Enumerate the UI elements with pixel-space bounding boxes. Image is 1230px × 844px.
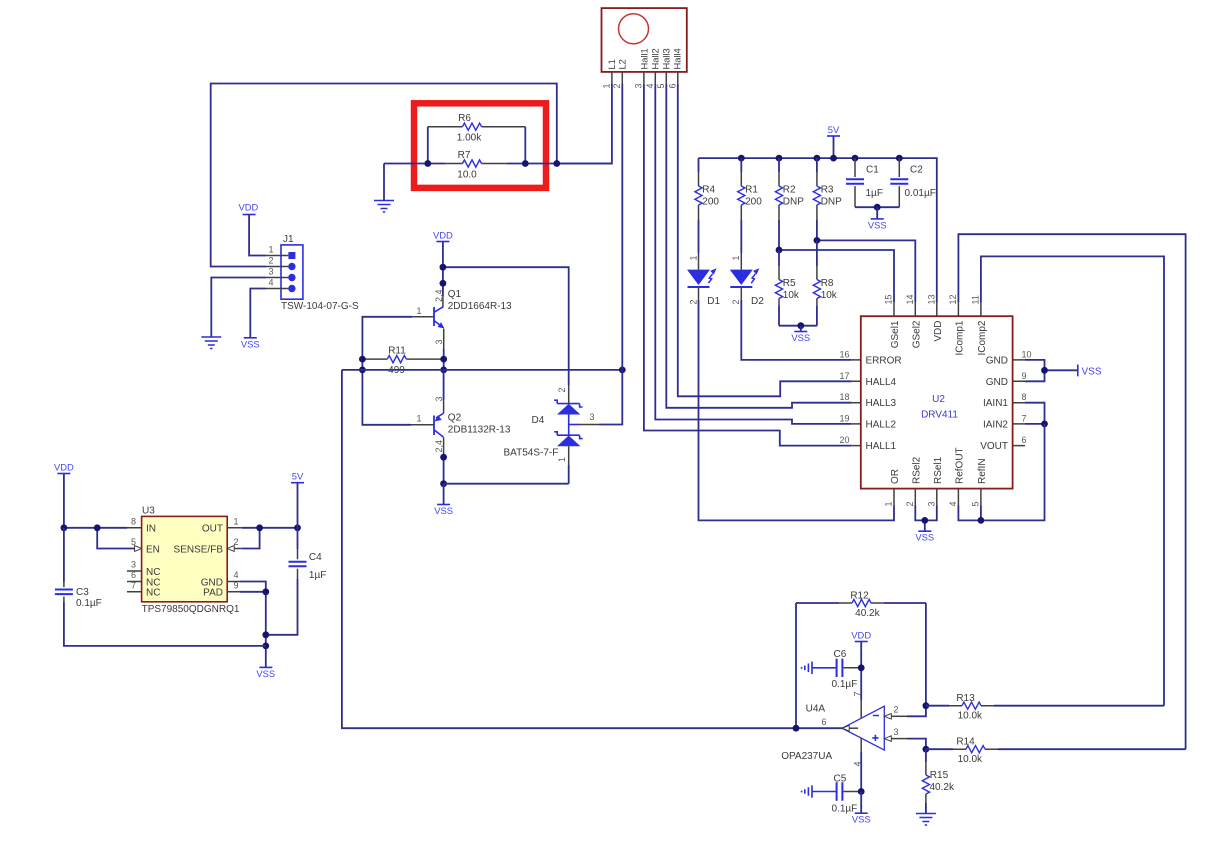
ground symbol left of R7 — [374, 201, 394, 213]
svg-text:2: 2 — [731, 299, 741, 304]
resistor R14 — [926, 748, 1186, 750]
svg-text:12: 12 — [948, 294, 958, 304]
wire left vertical to opamp output row — [342, 370, 858, 728]
svg-text:10.0k: 10.0k — [958, 710, 983, 721]
svg-text:R4: R4 — [702, 184, 715, 195]
rail junction R2 — [776, 155, 783, 162]
svg-text:200: 200 — [745, 196, 762, 207]
svg-text:GND: GND — [986, 377, 1008, 388]
junction VDD-C3 — [61, 524, 68, 531]
wire to VSS below Q2 — [443, 484, 445, 505]
svg-text:VDD: VDD — [933, 321, 944, 342]
svg-text:9: 9 — [1022, 371, 1027, 381]
J1 pin stubs — [266, 256, 288, 289]
resistor R1 — [740, 158, 742, 172]
svg-text:RSel2: RSel2 — [911, 456, 922, 484]
svg-text:6: 6 — [667, 83, 677, 88]
resistor R11 — [362, 358, 443, 360]
wire D1 to OR pin row — [699, 300, 895, 520]
junction C5 VSS — [858, 788, 865, 795]
wire J1 pin3 to ground — [211, 278, 266, 338]
svg-text:VDD: VDD — [239, 202, 259, 213]
svg-text:5V: 5V — [292, 471, 304, 482]
svg-text:1: 1 — [557, 457, 567, 462]
junction node R6R7 left — [424, 160, 431, 167]
svg-text:C2: C2 — [910, 164, 923, 175]
svg-text:R12: R12 — [850, 591, 869, 602]
svg-text:1: 1 — [233, 516, 238, 526]
J1 pad pin2 — [288, 263, 295, 270]
junction R11 left — [359, 356, 366, 363]
svg-text:Hall4: Hall4 — [673, 48, 683, 69]
junction Q1 emitter row — [440, 367, 447, 374]
svg-text:0.01µF: 0.01µF — [905, 188, 936, 199]
svg-text:16: 16 — [839, 349, 849, 359]
svg-text:1: 1 — [601, 83, 611, 88]
svg-text:R14: R14 — [956, 737, 975, 748]
svg-text:VSS: VSS — [868, 219, 887, 230]
svg-text:OR: OR — [890, 469, 901, 484]
opamp output arrow — [842, 725, 849, 731]
sensor pin stubs — [612, 72, 678, 84]
wire RefIN pin5 — [980, 506, 982, 521]
svg-text:40.2k: 40.2k — [930, 782, 955, 793]
svg-text:IComp2: IComp2 — [977, 320, 988, 355]
svg-text:6: 6 — [131, 570, 136, 580]
svg-text:DNP: DNP — [821, 196, 842, 207]
svg-text:VDD: VDD — [54, 462, 74, 473]
rail junction C1 — [852, 155, 859, 162]
junction C1C2 VSS — [874, 204, 881, 211]
svg-text:R11: R11 — [388, 346, 406, 357]
svg-text:3: 3 — [434, 396, 444, 401]
capacitor C3 — [63, 528, 65, 582]
junction GND pins — [1041, 367, 1048, 374]
svg-text:U2: U2 — [932, 394, 945, 405]
J1 pad pin1 — [288, 252, 295, 259]
junction R11 right — [440, 356, 447, 363]
svg-text:200: 200 — [702, 196, 719, 207]
wire IAIN pins joined — [1025, 403, 1045, 424]
svg-text:2,4: 2,4 — [434, 289, 444, 302]
svg-text:4: 4 — [645, 83, 655, 88]
svg-text:8: 8 — [1022, 392, 1027, 402]
svg-text:3: 3 — [131, 560, 136, 570]
svg-text:VSS: VSS — [852, 814, 871, 825]
svg-text:0.1µF: 0.1µF — [76, 598, 102, 609]
svg-text:40.2k: 40.2k — [855, 608, 880, 619]
resistor R13 — [926, 705, 1164, 707]
junction R5R8 VSS — [797, 322, 804, 329]
svg-text:C6: C6 — [834, 649, 847, 660]
wire C1 C2 bottoms — [855, 206, 899, 208]
svg-text:RefOUT: RefOUT — [954, 447, 965, 484]
svg-text:0.1µF: 0.1µF — [832, 679, 858, 690]
rail junction R3 — [814, 155, 821, 162]
wire HALL1 — [644, 84, 852, 446]
svg-text:J1: J1 — [283, 234, 294, 245]
svg-text:VDD: VDD — [851, 630, 871, 641]
svg-text:BAT54S-7-F: BAT54S-7-F — [504, 447, 559, 458]
svg-text:R5: R5 — [783, 278, 796, 289]
U3 right pin stubs — [227, 528, 242, 592]
wire R3 node to GSel2 — [817, 240, 915, 302]
connector J1 box — [281, 245, 303, 299]
wire to ground left of R7 — [383, 164, 385, 201]
svg-text:Hall3: Hall3 — [662, 48, 672, 69]
svg-text:3: 3 — [268, 267, 273, 277]
svg-text:2: 2 — [612, 83, 622, 88]
junction OUT-C4 — [294, 524, 301, 531]
wire GND pins to VSS — [1025, 360, 1078, 381]
svg-text:GND: GND — [986, 355, 1008, 366]
wire PAD to VSS — [240, 592, 266, 668]
resistor R6 — [428, 127, 526, 164]
svg-text:10: 10 — [1022, 349, 1032, 359]
wire R12 right down to minus node — [925, 603, 927, 706]
svg-text:L1: L1 — [607, 59, 617, 69]
svg-text:VSS: VSS — [434, 505, 453, 516]
wire output row to L2 vertical — [342, 369, 622, 371]
svg-text:RefIN: RefIN — [977, 458, 988, 484]
svg-text:IComp1: IComp1 — [954, 320, 965, 355]
svg-text:2: 2 — [268, 256, 273, 266]
J1 pad pin3 — [288, 274, 295, 281]
svg-text:1: 1 — [268, 245, 273, 255]
power VSS below R5 R8 — [800, 326, 802, 332]
svg-text:15: 15 — [884, 294, 894, 304]
svg-text:RSel1: RSel1 — [933, 456, 944, 484]
svg-text:5: 5 — [656, 83, 666, 88]
svg-text:10.0k: 10.0k — [958, 754, 983, 765]
wire SENSE/FB feedback — [242, 528, 260, 549]
svg-text:OUT: OUT — [202, 523, 223, 534]
junction below Q2 — [440, 454, 447, 461]
power VSS below opamp — [860, 792, 862, 814]
svg-text:OPA237UA: OPA237UA — [781, 751, 832, 762]
wire J1 pin4 to VSS — [250, 289, 266, 338]
svg-text:4: 4 — [268, 278, 273, 288]
svg-text:2DD1664R-13: 2DD1664R-13 — [448, 301, 512, 312]
svg-text:7: 7 — [853, 691, 863, 696]
wire Q2 emitter to VSS row — [443, 455, 445, 484]
svg-text:3: 3 — [894, 727, 899, 737]
svg-text:2,4: 2,4 — [434, 440, 444, 453]
svg-text:3: 3 — [633, 83, 643, 88]
svg-text:4: 4 — [853, 761, 863, 766]
svg-text:VSS: VSS — [256, 668, 275, 679]
U3 left pin stubs — [127, 528, 142, 592]
ground below R15 — [916, 814, 936, 826]
svg-text:1µF: 1µF — [866, 188, 883, 199]
wire bottom row to D4 bottom — [444, 483, 569, 485]
junction output node — [793, 725, 800, 732]
svg-text:C1: C1 — [866, 164, 879, 175]
svg-text:D4: D4 — [532, 415, 545, 426]
svg-text:4: 4 — [233, 570, 238, 580]
junction C6 VDD — [858, 664, 865, 671]
junction at Q1 collector — [440, 280, 447, 287]
arrow into EN pin — [135, 546, 142, 552]
junction RefIN — [978, 517, 985, 524]
power VSS below U3 — [259, 666, 272, 668]
junction node R6R7 right — [522, 160, 529, 167]
op-amp U4A — [842, 706, 884, 750]
svg-text:1: 1 — [416, 413, 421, 423]
svg-text:R3: R3 — [821, 184, 834, 195]
wire J1 pin2 up and across to R6R7 output node — [211, 84, 557, 267]
svg-text:2: 2 — [688, 299, 698, 304]
rail junction R1 — [738, 155, 745, 162]
svg-text:R8: R8 — [821, 278, 834, 289]
junction Q2 bottom row — [440, 480, 447, 487]
svg-text:VSS: VSS — [1082, 366, 1102, 377]
svg-text:IAIN1: IAIN1 — [983, 398, 1008, 409]
svg-text:U3: U3 — [142, 506, 155, 517]
svg-text:9: 9 — [233, 580, 238, 590]
svg-text:13: 13 — [926, 294, 936, 304]
svg-text:TSW-104-07-G-S: TSW-104-07-G-S — [281, 301, 359, 312]
svg-text:ERROR: ERROR — [866, 355, 902, 366]
diode D4 top schottky — [568, 385, 570, 404]
red highlight rectangle — [414, 103, 546, 188]
wire R2 node to GSel1 — [779, 250, 894, 302]
wire HALL4 — [678, 84, 852, 396]
svg-text:GSel1: GSel1 — [890, 320, 901, 348]
junction R3-R8 — [814, 237, 821, 244]
svg-text:NC: NC — [146, 567, 160, 578]
power VSS below J1 — [244, 337, 257, 339]
wire HALL2 — [655, 84, 851, 424]
resistor R12 — [796, 602, 926, 604]
wire OUT to 5V node — [242, 527, 298, 529]
svg-text:3: 3 — [434, 339, 444, 344]
svg-text:1: 1 — [688, 255, 698, 260]
svg-text:U4A: U4A — [806, 704, 826, 715]
svg-text:5V: 5V — [828, 124, 840, 135]
svg-text:2DB1132R-13: 2DB1132R-13 — [448, 425, 511, 436]
opamp plus input pin3 — [884, 736, 891, 742]
power VSS below U2 — [918, 530, 931, 532]
wire R12 left down to output node — [795, 603, 797, 728]
resistor R15 — [925, 749, 927, 762]
power VSS below Q2 — [437, 504, 450, 506]
capacitor C2 — [898, 158, 900, 177]
resistor R3 — [816, 158, 818, 172]
svg-text:L2: L2 — [618, 59, 628, 69]
svg-text:C3: C3 — [76, 587, 89, 598]
svg-text:NC: NC — [146, 588, 160, 599]
J1 pad pin4 — [288, 285, 295, 292]
wire VDD down to IN row — [64, 474, 127, 528]
wire VDD to Q1 collector — [442, 242, 444, 297]
svg-text:10k: 10k — [821, 290, 838, 301]
wire Q1 collector node to D4 top — [443, 267, 569, 385]
junction node R7 output — [553, 160, 560, 167]
svg-text:DNP: DNP — [783, 196, 804, 207]
svg-text:Hall2: Hall2 — [651, 48, 661, 69]
U2 top pin stubs — [894, 302, 981, 316]
svg-text:VSS: VSS — [915, 532, 934, 543]
hall sensor module box — [602, 8, 687, 72]
svg-text:2: 2 — [894, 705, 899, 715]
opamp minus input pin2 — [884, 714, 891, 720]
svg-text:10k: 10k — [783, 290, 800, 301]
rail junction C2 — [896, 155, 903, 162]
svg-text:2: 2 — [557, 387, 567, 392]
LED D1 — [698, 253, 700, 270]
svg-text:0.1µF: 0.1µF — [832, 803, 858, 814]
svg-text:17: 17 — [839, 371, 849, 381]
svg-text:VOUT: VOUT — [980, 441, 1008, 452]
resistor R5 — [778, 250, 780, 266]
svg-text:6: 6 — [821, 717, 826, 727]
diode D4 bottom schottky — [554, 432, 582, 439]
power VSS right of U2 — [1077, 365, 1079, 377]
LED D2 — [740, 253, 742, 270]
svg-text:R7: R7 — [458, 150, 471, 161]
wire Q1 emitter down — [443, 349, 445, 370]
transistor Q1 — [442, 296, 444, 307]
resistor R4 — [698, 158, 700, 172]
capacitor C5 — [844, 791, 862, 793]
capacitor C1 — [854, 158, 856, 177]
wire L1 to R6R7 node — [557, 84, 612, 164]
svg-text:R6: R6 — [458, 113, 471, 124]
svg-text:7: 7 — [131, 580, 136, 590]
svg-text:DRV411: DRV411 — [921, 410, 958, 421]
junction C4 bottom — [262, 631, 269, 638]
svg-text:PAD: PAD — [203, 588, 223, 599]
svg-text:2: 2 — [905, 501, 915, 506]
svg-text:Q1: Q1 — [448, 289, 462, 300]
svg-text:HALL3: HALL3 — [866, 398, 897, 409]
U2 bottom pin stubs — [894, 489, 981, 506]
wire IComp1 to outer loop — [958, 234, 1185, 749]
junction OUT-SENSE — [256, 524, 263, 531]
svg-text:Hall1: Hall1 — [640, 48, 650, 69]
svg-text:VDD: VDD — [433, 230, 453, 241]
capacitor C4 — [297, 528, 299, 549]
svg-text:HALL2: HALL2 — [866, 419, 897, 430]
wire VDD to J1 pin1 — [249, 215, 266, 256]
svg-text:TPS79850QDGNRQ1: TPS79850QDGNRQ1 — [142, 604, 240, 615]
junction at VDD branch — [440, 264, 447, 271]
svg-text:11: 11 — [970, 295, 980, 304]
svg-text:18: 18 — [839, 392, 849, 402]
junction minus node R13 — [923, 702, 930, 709]
5V rail — [699, 158, 937, 302]
svg-text:5: 5 — [970, 501, 980, 506]
svg-text:D1: D1 — [707, 296, 720, 307]
svg-text:R1: R1 — [745, 184, 758, 195]
svg-text:1: 1 — [731, 255, 741, 260]
wire EN branch — [97, 528, 134, 549]
wire D2 to ERROR pin — [741, 300, 851, 360]
svg-text:1: 1 — [884, 501, 894, 506]
arrow into SENSE/FB pin — [227, 546, 234, 552]
svg-text:C4: C4 — [309, 552, 322, 563]
ground symbol below J1 — [201, 337, 221, 349]
wire IComp2 to inner loop — [981, 256, 1164, 705]
svg-text:SENSE/FB: SENSE/FB — [174, 544, 224, 555]
svg-text:IAIN2: IAIN2 — [983, 419, 1008, 430]
wire HALL3 — [666, 84, 851, 408]
DRV411 U2 box — [861, 316, 1013, 488]
svg-text:HALL1: HALL1 — [866, 441, 897, 452]
svg-text:6: 6 — [1022, 435, 1027, 445]
svg-text:GSel2: GSel2 — [911, 320, 922, 348]
junction RSel VSS — [921, 517, 928, 524]
resistor R2 — [778, 158, 780, 172]
rail junction 5V — [830, 155, 837, 162]
junction plus node R14 — [923, 746, 930, 753]
wire IAIN down to RefOUT RefIN — [958, 424, 1044, 521]
junction R11 base row — [359, 367, 366, 374]
svg-text:R13: R13 — [956, 693, 975, 704]
transistor Q2 — [443, 370, 445, 400]
junction EN branch — [94, 524, 101, 531]
svg-text:7: 7 — [1022, 413, 1027, 423]
U2 right pin stubs — [1013, 360, 1025, 446]
svg-text:VSS: VSS — [241, 338, 260, 349]
svg-text:D2: D2 — [751, 296, 764, 307]
junction C3 bottom row — [262, 643, 269, 650]
svg-text:10.0: 10.0 — [457, 169, 477, 180]
U2 left pin stubs — [852, 360, 861, 446]
resistor R8 — [816, 240, 818, 266]
sensor core circle — [619, 14, 649, 44]
wire L2 from sensor down to D4 pin3 — [599, 84, 622, 425]
junction on L2 vertical — [619, 367, 626, 374]
svg-text:1µF: 1µF — [309, 570, 326, 581]
svg-text:Q2: Q2 — [448, 413, 462, 424]
regulator U3 box — [142, 516, 228, 601]
svg-text:19: 19 — [839, 413, 849, 423]
resistor R7 — [384, 163, 612, 165]
junction IAIN — [1041, 421, 1048, 428]
svg-text:4: 4 — [948, 501, 958, 506]
svg-text:R2: R2 — [783, 184, 796, 195]
svg-text:EN: EN — [146, 544, 160, 555]
wire GND pin to PAD junction — [240, 582, 266, 592]
svg-text:HALL4: HALL4 — [866, 377, 897, 388]
svg-text:20: 20 — [839, 435, 849, 445]
svg-text:C5: C5 — [834, 773, 847, 784]
svg-text:8: 8 — [131, 516, 136, 526]
svg-text:5: 5 — [131, 537, 136, 547]
svg-text:R15: R15 — [930, 770, 949, 781]
svg-text:1: 1 — [416, 306, 421, 316]
junction R2-R5 — [776, 247, 783, 254]
capacitor C6 — [844, 667, 862, 669]
svg-text:1.00k: 1.00k — [457, 133, 482, 144]
svg-text:VSS: VSS — [791, 332, 810, 343]
junction GND-PAD — [262, 588, 269, 595]
svg-text:3: 3 — [926, 501, 936, 506]
svg-text:3: 3 — [590, 412, 595, 422]
wire RSel2 RSel1 to VSS — [915, 506, 937, 532]
wire R5 R8 bottoms — [779, 325, 817, 327]
wire Q1 base to Q2 base — [362, 317, 412, 425]
power VSS below C1 C2 — [876, 207, 878, 219]
svg-text:IN: IN — [146, 523, 156, 534]
svg-text:14: 14 — [905, 294, 915, 304]
